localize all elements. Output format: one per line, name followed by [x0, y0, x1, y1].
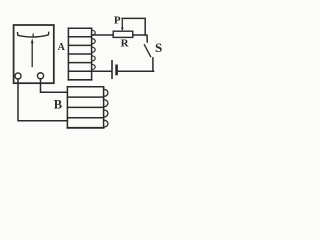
svg-text:P: P: [114, 14, 121, 26]
svg-text:R: R: [121, 38, 130, 50]
svg-text:B: B: [54, 97, 62, 111]
svg-text:A: A: [58, 42, 66, 53]
svg-text:S: S: [155, 40, 162, 55]
